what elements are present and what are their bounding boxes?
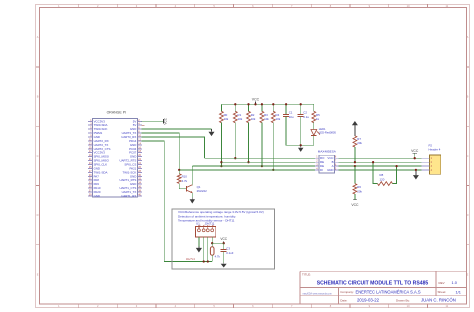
junction dot R1 rail — [234, 103, 236, 105]
svg-text:10u: 10u — [289, 115, 294, 119]
svg-text:ENERTEC LATINOAMÉRICA S.A.S: ENERTEC LATINOAMÉRICA S.A.S — [356, 290, 421, 295]
wire pin6 GND — [142, 128, 212, 130]
svg-text:1.0: 1.0 — [452, 280, 458, 285]
capacitor C2 0.1u — [298, 104, 310, 145]
svg-text:4.7k: 4.7k — [182, 179, 188, 183]
svg-text:REV: REV — [439, 281, 445, 285]
svg-text:20k: 20k — [357, 141, 362, 145]
ground at DHT11 pin1 — [198, 246, 200, 248]
junction dot R4 to DI line — [272, 169, 274, 171]
IC U3 MAX485ESA — [315, 150, 339, 173]
svg-text:E: E — [467, 272, 469, 276]
svg-text:VCC: VCC — [252, 98, 260, 102]
junction dot R4 rail — [272, 103, 274, 105]
title text — [302, 273, 461, 303]
svg-text:VCC: VCC — [411, 149, 419, 153]
wire pin10 UART3_RX to RO — [142, 137, 205, 158]
junction dot R7 B line — [354, 161, 356, 163]
wire GND net to P2 — [339, 169, 430, 171]
svg-text:Drawn By:: Drawn By: — [396, 298, 410, 302]
svg-text:4: 4 — [213, 225, 214, 227]
resistor R4 10k — [271, 104, 280, 170]
junction dot R8 A line — [395, 165, 397, 167]
svg-text:10k: 10k — [276, 117, 281, 121]
svg-text:3: 3 — [208, 225, 209, 227]
wire gnd net under caps — [286, 144, 314, 146]
ground above R7 — [354, 125, 356, 136]
svg-text:B: B — [37, 95, 39, 99]
VCC flag at DHT11 — [220, 237, 227, 243]
junction dot R2 rail — [247, 103, 249, 105]
resistor R10 4.7k — [177, 170, 187, 189]
ground at C3 — [223, 263, 225, 264]
ground under C2 — [300, 145, 302, 147]
svg-text:ORANGE PI: ORANGE PI — [107, 110, 126, 114]
resistor R3 10k — [260, 104, 269, 166]
svg-text:C: C — [467, 154, 469, 158]
resistor R2 10k — [247, 104, 256, 162]
resistor R7 20k — [353, 136, 363, 162]
VCC flag at pin2 (rotated) — [164, 117, 168, 124]
svg-text:1/1: 1/1 — [456, 290, 461, 295]
svg-text:Sheet:: Sheet: — [438, 290, 447, 294]
svg-text:0.1u: 0.1u — [303, 115, 309, 119]
note box — [172, 209, 275, 269]
junction dot VCC tap — [254, 103, 256, 105]
svg-text:10k: 10k — [238, 117, 243, 121]
junction dot pin4 node — [211, 242, 213, 244]
svg-text:10k: 10k — [251, 117, 256, 121]
transistor Q1 2N2222 — [179, 166, 207, 197]
wire DHT11 pin1 to ground — [198, 237, 200, 247]
ground at pin6 wire — [211, 129, 213, 132]
svg-text:A: A — [467, 35, 469, 39]
wire DHT11 pin2 data — [203, 237, 205, 262]
svg-text:VCC: VCC — [164, 117, 168, 124]
junction dot C1 rail — [285, 103, 287, 105]
svg-text:D: D — [467, 213, 469, 217]
wire RE bus line — [221, 161, 319, 163]
IC ORANGE PI 40-pin header — [88, 110, 142, 197]
wire VCC net to P2 — [339, 157, 430, 159]
ground near P2 — [415, 170, 417, 175]
svg-text:10k: 10k — [264, 117, 269, 121]
resistor R1 10k — [233, 104, 242, 158]
wire DE bus line — [192, 165, 319, 167]
wire pin4 node to C3 — [212, 242, 224, 244]
wire pin2 5V to VCC — [142, 120, 164, 122]
wire pin12 PD14 to DHT11 data — [142, 141, 213, 262]
junction dot C3 top — [223, 242, 225, 244]
wire DHT11 pin4 to VCC — [211, 237, 213, 243]
svg-text:120: 120 — [380, 177, 385, 181]
junction dot R0 to DE line — [220, 165, 222, 167]
wire pin8 UART3_TX to DI — [142, 133, 180, 170]
junction dot R2 to RE line — [247, 161, 249, 163]
svg-text:GND: GND — [327, 168, 333, 172]
capacitor C1 10u — [283, 104, 294, 145]
wire DHT11 pin3 — [207, 237, 209, 262]
svg-text:MAX485ESA: MAX485ESA — [318, 150, 337, 154]
svg-text:20k: 20k — [357, 190, 362, 194]
svg-text:DI: DI — [320, 168, 323, 172]
svg-text:4.7k: 4.7k — [215, 254, 221, 258]
junction dot C2 rail — [300, 103, 302, 105]
svg-text:Date:: Date: — [340, 298, 347, 302]
svg-text:SCHEMATIC CIRCUIT MODULE TTL T: SCHEMATIC CIRCUIT MODULE TTL TO RS485 — [317, 280, 429, 286]
svg-text:LED1: LED1 — [319, 127, 326, 131]
wire DI bus line — [179, 169, 319, 171]
svg-text:UART1_RX: UART1_RX — [121, 194, 136, 198]
junction dot data pin3 — [207, 260, 209, 262]
wire RO bus line — [204, 157, 319, 159]
sensor U1 DHT11 — [196, 221, 216, 237]
junction dot data pin2 — [203, 260, 205, 262]
svg-text:DHT11: DHT11 — [186, 257, 195, 261]
junction dot R1 to RO line — [234, 157, 236, 159]
junction dot VCC near P2 — [414, 157, 416, 159]
resistor R0 10k — [220, 104, 229, 166]
svg-text:Header 4: Header 4 — [429, 148, 441, 152]
svg-text:VCC: VCC — [220, 237, 227, 241]
svg-text:10k: 10k — [224, 117, 229, 121]
VCC flag near P2 — [411, 149, 419, 158]
svg-text:E: E — [37, 272, 39, 276]
svg-text:TITLE:: TITLE: — [302, 273, 311, 277]
resistor R6 20k — [353, 166, 363, 200]
svg-text:Company:: Company: — [340, 290, 354, 294]
pin4 no-connect stub — [142, 124, 145, 126]
svg-text:easyEDA www.easyeda.com: easyEDA www.easyeda.com — [303, 293, 332, 296]
VCC flag on rail — [252, 98, 260, 105]
VCC flag below R6 — [351, 200, 359, 207]
junction dot gnd net — [300, 144, 302, 146]
svg-text:2019-03-22: 2019-03-22 — [357, 298, 380, 303]
svg-text:GND: GND — [94, 194, 100, 198]
junction dot ground near P2 — [415, 169, 417, 171]
svg-text:0.1uF: 0.1uF — [226, 251, 233, 255]
wire VCC rail — [221, 103, 313, 105]
svg-text:D: D — [37, 213, 39, 217]
note text — [178, 210, 264, 223]
capacitor C3 0.1uF — [221, 243, 234, 262]
svg-text:JUAN C. RINCÓN: JUAN C. RINCÓN — [421, 298, 456, 303]
svg-text:C: C — [37, 154, 39, 158]
svg-text:2: 2 — [204, 225, 205, 227]
wire A net to P2 — [339, 165, 430, 167]
svg-text:B: B — [467, 95, 469, 99]
title block — [300, 271, 467, 304]
svg-text:VCC: VCC — [351, 203, 359, 207]
svg-text:1: 1 — [200, 225, 201, 227]
svg-text:LED-Red0805: LED-Red0805 — [319, 131, 337, 135]
LED LED1 LED-Red0805 — [311, 127, 336, 146]
junction dot R3 rail — [261, 103, 263, 105]
ground at Q1 emitter — [191, 197, 193, 199]
wire B net to P2 — [339, 161, 430, 163]
junction dot DI left — [178, 169, 180, 171]
junction dot R8 B line — [372, 161, 374, 163]
resistor R9 4.7k pullup — [210, 243, 220, 261]
connector P2 Header 4 — [422, 143, 441, 174]
svg-text:A: A — [37, 35, 39, 39]
resistor R8 120 termination — [373, 162, 397, 185]
junction dot R6 A line — [354, 165, 356, 167]
resistor R5 1k — [312, 104, 320, 129]
junction dot R3 to DE line — [261, 165, 263, 167]
svg-text:2N2222: 2N2222 — [197, 189, 208, 193]
junction dot R0 to RE line — [220, 161, 222, 163]
